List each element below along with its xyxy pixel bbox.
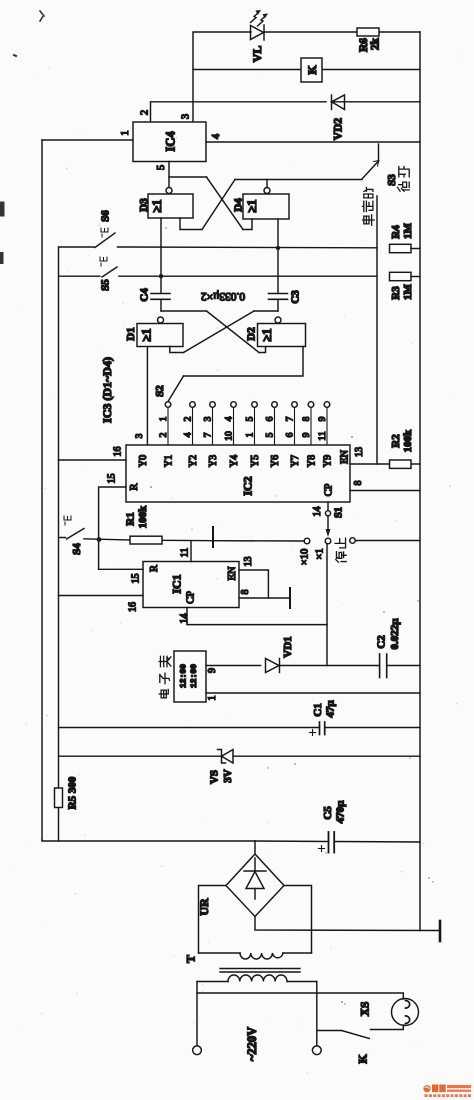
wire left outer bus [41, 140, 43, 840]
svg-text:1: 1 [246, 432, 256, 437]
svg-text:Y8: Y8 [307, 455, 318, 467]
svg-text:1: 1 [120, 130, 131, 135]
wire UR left AC to secondary [199, 886, 227, 954]
svg-text:S4: S4 [71, 543, 83, 555]
gate D4 (IC3) [243, 188, 289, 220]
svg-text:R2: R2 [390, 434, 402, 448]
capacitor C1 electrolytic [320, 722, 325, 735]
svg-text:2k: 2k [370, 37, 382, 50]
svg-text:1: 1 [207, 696, 218, 701]
wire D2 input from S2 wiper [168, 347, 303, 402]
counter IC1 box [143, 562, 239, 608]
ground terminal bar [439, 921, 442, 941]
svg-text:Y2: Y2 [188, 455, 199, 467]
svg-text:Y6: Y6 [270, 455, 281, 467]
svg-text:Y4: Y4 [229, 455, 240, 467]
capacitor C5 electrolytic [329, 832, 335, 853]
wire x10 contact to reset/R1 line [213, 540, 304, 542]
wire left rail below R5 [58, 808, 60, 842]
svg-text:Y9: Y9 [323, 455, 334, 467]
svg-text:S3: S3 [386, 174, 398, 186]
node junction C3 column / S6 wire [276, 246, 280, 250]
wire stop contact to right bus [355, 540, 420, 542]
wire IC4 pin1 to left bus [42, 139, 133, 141]
svg-text:13: 13 [243, 557, 254, 567]
resistor R1 [130, 536, 162, 544]
gate D2 (IC3) [258, 317, 306, 347]
wire D3 input column to C4 [160, 218, 162, 293]
svg-text:×10: ×10 [300, 549, 311, 565]
svg-text:≥1: ≥1 [150, 199, 164, 212]
plug prong left [193, 1046, 202, 1055]
wire IC4 pin4 to right bus [206, 141, 420, 143]
wire mains right branch to K contact [317, 1030, 342, 1032]
svg-text:CP: CP [324, 483, 335, 496]
svg-text:2: 2 [140, 110, 151, 115]
wire top rail (LED/R6 feed) [193, 32, 420, 122]
capacitor C3 [269, 294, 288, 312]
svg-text:Y3: Y3 [208, 455, 219, 467]
svg-text:8: 8 [353, 481, 364, 486]
svg-text:Y7: Y7 [290, 455, 301, 467]
svg-text:R: R [129, 483, 140, 490]
svg-text:Y5: Y5 [250, 455, 261, 467]
clock display 12:00 [180, 664, 200, 688]
svg-text:≥1: ≥1 [245, 199, 259, 212]
svg-text:7: 7 [286, 416, 296, 421]
wire clock pin1 to right bus [206, 692, 420, 694]
label S4 with gang mark [64, 516, 83, 555]
wire mains left prong [196, 982, 198, 1046]
svg-text:3: 3 [135, 433, 145, 438]
label R3 1M [390, 283, 414, 300]
svg-text:≥1: ≥1 [260, 328, 274, 341]
svg-text:15: 15 [107, 474, 118, 484]
right bus (vertical, full height) [419, 32, 421, 931]
terminal bar on R1 line [212, 527, 214, 547]
svg-text:12:00: 12:00 [180, 664, 189, 688]
svg-text:15: 15 [131, 574, 142, 584]
svg-text:~220V: ~220V [245, 1027, 259, 1061]
watermark logo [423, 1085, 471, 1098]
wire S3 single-time contact / R4 R3 column [376, 196, 378, 464]
svg-text:5: 5 [266, 432, 276, 437]
wires S2 contacts to IC2 pins [168, 407, 327, 445]
switch S1 (CP select) [304, 502, 355, 544]
capacitor C4 [151, 294, 170, 312]
diode VD2 [332, 95, 345, 110]
wire C1 rail (3V supply) [59, 727, 421, 729]
svg-text:R6: R6 [358, 38, 370, 52]
svg-text:XS: XS [360, 1002, 372, 1017]
svg-text:11: 11 [180, 548, 191, 558]
scan artifacts [2, 11, 45, 262]
wire IC1 pin11 stub [190, 541, 192, 561]
svg-text:S1: S1 [334, 507, 345, 518]
svg-text:C3: C3 [290, 290, 302, 304]
svg-text:3: 3 [204, 416, 214, 421]
label 单定时 (single timing) [363, 188, 375, 226]
svg-text:VL: VL [250, 46, 264, 63]
label R6 2k [358, 37, 382, 52]
wire second left bus (switch common rail) [58, 247, 60, 788]
svg-text:0.033μ×2: 0.033μ×2 [201, 290, 246, 302]
svg-text:D1: D1 [125, 327, 137, 340]
svg-text:K: K [305, 65, 319, 75]
diode inside UR [244, 858, 266, 899]
wire R1 line (S4 common to x10) [84, 539, 213, 541]
wire IC1 pin15 from reset column [99, 568, 143, 570]
svg-text:6: 6 [286, 432, 296, 437]
socket XS [392, 999, 419, 1026]
svg-text:9: 9 [207, 668, 218, 673]
electronic clock module box [174, 651, 206, 702]
svg-text:14: 14 [179, 614, 190, 624]
svg-text:10: 10 [225, 431, 235, 441]
label S5 with gang mark [100, 257, 112, 291]
relay coil K [301, 58, 322, 82]
svg-text:8: 8 [240, 590, 251, 595]
wire x1 column (S1 to CP junction to VD1 node) [326, 544, 328, 666]
svg-text:4: 4 [184, 432, 194, 437]
svg-text:≥1: ≥1 [140, 328, 154, 341]
svg-text:IC4: IC4 [164, 131, 178, 152]
wire D2 out to D1 input (cross) [170, 311, 278, 353]
transformer T primary [197, 975, 317, 982]
wire IC1 pin8 to terminal [239, 597, 290, 599]
wire clock pin9 to VD1 [206, 665, 261, 667]
label 循环 (loop) [398, 167, 410, 192]
capacitor C2 [380, 654, 420, 678]
svg-text:R1: R1 [125, 512, 137, 525]
svg-text:47μ: 47μ [325, 700, 337, 718]
svg-text:R3: R3 [390, 286, 402, 300]
svg-text:1: 1 [159, 416, 169, 421]
IC2 pin number labels (Y1-Y9) [159, 431, 328, 441]
svg-text:VD1: VD1 [282, 636, 294, 657]
wire IC2 pin15 reset [99, 487, 126, 569]
svg-text:CP: CP [186, 591, 197, 604]
wire IC4 pin5 to D3 output node [169, 162, 207, 188]
wire UR right AC to secondary [284, 886, 312, 954]
label R1 100k [125, 505, 150, 529]
op-amp U: IC4 box [133, 122, 206, 162]
svg-text:D4: D4 [233, 198, 245, 212]
plus sign C5 [319, 846, 325, 852]
label S6 with gang mark [100, 210, 112, 237]
svg-text:S5: S5 [100, 279, 112, 291]
svg-text:9: 9 [302, 432, 312, 437]
svg-text:3: 3 [181, 114, 192, 119]
svg-text:16: 16 [128, 602, 139, 612]
transformer core [220, 969, 300, 973]
svg-text:470μ: 470μ [335, 800, 347, 824]
selector S2 contacts (1-9) [165, 402, 330, 408]
svg-text:7: 7 [204, 432, 214, 437]
resistor R2 [390, 460, 412, 468]
svg-text:EN: EN [227, 566, 238, 580]
resistor R3 [390, 272, 421, 280]
svg-text:5: 5 [246, 416, 256, 421]
plug prong right [312, 1046, 321, 1055]
svg-text:13: 13 [354, 447, 365, 457]
svg-text:1M: 1M [402, 222, 414, 239]
svg-text:C1: C1 [312, 703, 324, 716]
svg-text:R: R [149, 565, 160, 572]
switch S3 (blade and contact) [362, 144, 379, 179]
svg-text:S2: S2 [154, 385, 166, 397]
svg-text:K: K [356, 1054, 370, 1064]
svg-text:VS: VS [209, 770, 221, 784]
wire IC1 pin16 to left rail [59, 595, 144, 597]
label R4 1M [390, 222, 414, 239]
wire IC2 pin8 to right bus [350, 490, 420, 492]
wire IC2 pin16 to left rail [59, 459, 127, 461]
wire VS rail [59, 755, 421, 757]
svg-text:EN: EN [340, 450, 351, 464]
svg-text:1M: 1M [402, 283, 414, 300]
labels Y0-Y9 inside IC2 [138, 455, 334, 467]
contact number labels 1-9 [159, 416, 328, 421]
gate D1 (IC3) [137, 317, 183, 347]
svg-text:R4: R4 [390, 225, 402, 239]
switch contact K (relay contact) [342, 1025, 404, 1039]
wire D3 out to D4 input (cross) [207, 177, 253, 230]
svg-text:C4: C4 [139, 288, 151, 302]
svg-text:Y0: Y0 [138, 455, 149, 467]
node junction C4 column / S5 wire [159, 274, 163, 278]
svg-text:IC2: IC2 [241, 476, 255, 495]
resistor R6 [357, 28, 379, 36]
node junction S4/R1/pin15 [97, 537, 102, 542]
wire IC1 pin13 EN [239, 570, 268, 598]
svg-text:2: 2 [159, 432, 169, 437]
switch S5 [59, 267, 377, 277]
wire IC2 pin13 EN / R2 [350, 463, 420, 465]
svg-text:11: 11 [318, 431, 328, 440]
wire D1 input from IC2 Y0 pin3 [146, 347, 148, 446]
svg-text:9: 9 [318, 416, 328, 421]
svg-text:8: 8 [302, 416, 312, 421]
wire bottom plus rail [42, 840, 420, 842]
transformer T secondary [199, 953, 312, 959]
svg-text:2: 2 [184, 416, 194, 421]
svg-text:D3: D3 [138, 198, 150, 212]
zener VS [218, 750, 234, 764]
resistor R4 [390, 244, 421, 252]
wire mains left to socket XS [197, 993, 403, 999]
label R2 100k [390, 429, 414, 453]
terminal bar pin8/13 [289, 588, 291, 608]
plus sign C1 [310, 730, 316, 736]
svg-text:Y1: Y1 [164, 455, 175, 467]
svg-text:T: T [184, 955, 198, 963]
svg-text:IC1: IC1 [170, 574, 184, 593]
svg-text:3V: 3V [222, 769, 234, 783]
gate D3 (IC3) [148, 188, 193, 219]
svg-text:4: 4 [211, 133, 222, 139]
svg-text:6: 6 [266, 416, 276, 421]
label C1 47u [312, 700, 337, 718]
svg-text:16: 16 [113, 447, 124, 457]
label 电子表 (electronic clock) [159, 656, 171, 698]
svg-text:12:00: 12:00 [190, 664, 199, 688]
svg-text:R5 300: R5 300 [67, 776, 79, 809]
svg-text:S6: S6 [100, 210, 112, 222]
svg-text:D2: D2 [246, 327, 258, 341]
wire D4 out to S3 and D3 input (cross) [180, 180, 362, 230]
svg-text:IC3 (D1~D4): IC3 (D1~D4) [100, 357, 114, 423]
svg-text:0.022μ: 0.022μ [389, 618, 401, 650]
svg-text:14: 14 [312, 507, 323, 517]
svg-text:×1: ×1 [315, 548, 326, 559]
wire D1 out to D2 input (cross) [161, 311, 266, 353]
wire D4 input column to C3 [277, 219, 279, 293]
wire IC1 pin14 CP to x1 column [187, 608, 327, 625]
switch S4 [59, 529, 85, 540]
svg-text:100k: 100k [137, 505, 149, 529]
wire K coil (pin3 branch) [193, 69, 420, 71]
svg-text:100k: 100k [402, 429, 414, 453]
svg-text:C5: C5 [322, 806, 334, 820]
label C5 470u [322, 800, 347, 824]
wire UR minus output to terminal [255, 917, 440, 931]
switch S6 [59, 233, 377, 248]
svg-text:VD2: VD2 [333, 118, 345, 141]
diode VD1 [266, 659, 380, 673]
counter IC2 box [126, 445, 350, 502]
label C2 0.022u [376, 618, 402, 650]
wire VD2 (pin2 branch) [151, 102, 421, 122]
label 停止 (stop) [335, 538, 346, 562]
wire mains right prong [316, 982, 318, 1046]
svg-text:4: 4 [225, 416, 235, 421]
LED VL [251, 10, 269, 40]
label VS 3V [209, 769, 235, 784]
bridge rectifier UR [226, 841, 284, 917]
resistor R5 (in left rail) [55, 788, 63, 808]
svg-text:C2: C2 [376, 635, 388, 649]
